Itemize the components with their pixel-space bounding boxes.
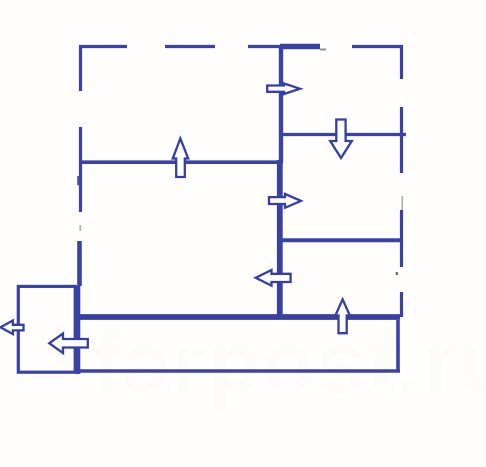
interior vertical wall lower xyxy=(277,160,283,316)
gray thin dash right wall xyxy=(401,196,403,211)
wall right dash 3 xyxy=(400,210,403,267)
interior wall y240 xyxy=(278,238,403,242)
door arrow right xyxy=(269,194,301,208)
gray door mark left wall xyxy=(79,225,81,231)
thick load wall y317 xyxy=(77,314,400,320)
wall left lower run xyxy=(78,241,80,374)
wall top thick lintel xyxy=(280,44,320,49)
wall top dash 1 xyxy=(79,45,127,48)
wall right dash 1 xyxy=(400,45,403,79)
wall right dash 2 xyxy=(400,107,403,173)
door arrow right small xyxy=(267,84,300,95)
wall top dash 2 xyxy=(165,45,215,48)
bottom right vertical wall xyxy=(396,320,400,371)
gray step mark top xyxy=(320,49,326,51)
interior wall y135 xyxy=(280,133,406,136)
interior vertical wall upper xyxy=(279,45,283,162)
wall left dash 2 xyxy=(79,127,82,212)
wall right dash 4 xyxy=(400,292,403,317)
speck right wall xyxy=(396,272,398,275)
wall top dash 4 xyxy=(352,45,403,48)
door arrow left balcony xyxy=(49,334,88,354)
interior wall y162 xyxy=(80,160,283,164)
bottom long wall y371 xyxy=(78,369,400,372)
door arrow left mid xyxy=(256,270,291,286)
wall left dash 1 xyxy=(79,45,82,91)
door arrow up small xyxy=(335,299,349,333)
radiator tick left wall xyxy=(77,176,79,185)
wall top dash 3 xyxy=(248,45,320,48)
svg-text:farpost.ru: farpost.ru xyxy=(92,315,486,411)
door arrow up big xyxy=(173,139,188,178)
balcony box xyxy=(18,286,75,372)
door arrow down xyxy=(330,120,352,159)
door arrow left edge xyxy=(1,321,24,335)
